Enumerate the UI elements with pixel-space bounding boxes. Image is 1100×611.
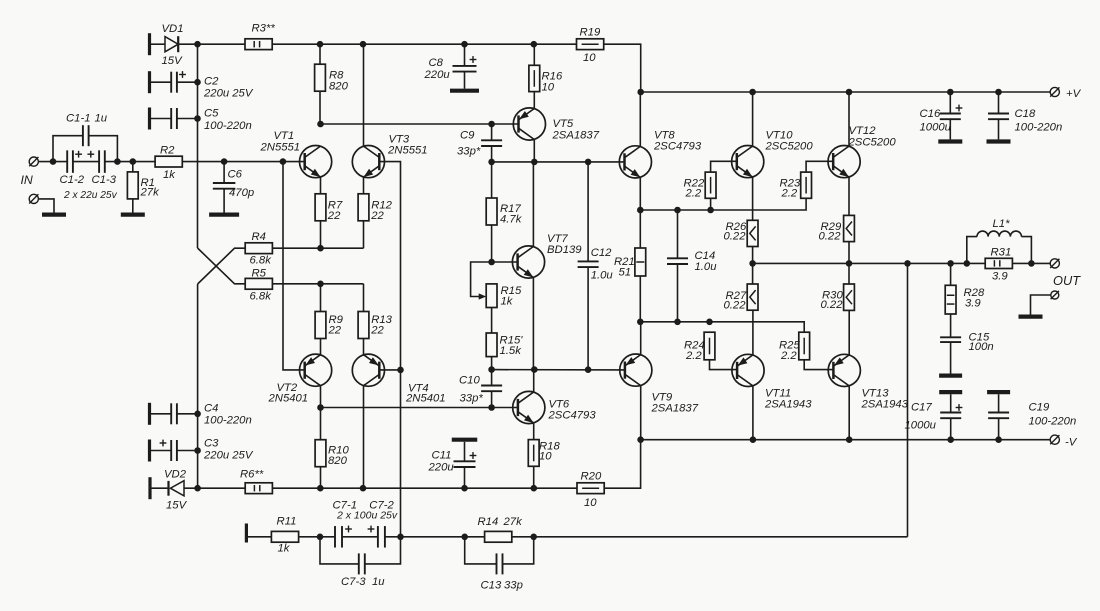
capacitor C11 220u [452, 438, 478, 442]
svg-text:C8: C8 [429, 57, 444, 69]
svg-text:R5: R5 [252, 268, 267, 280]
wire C7-1 to C7-2 [342, 536, 378, 538]
junction VT13 collector bottom [846, 436, 853, 443]
node R1 top [130, 158, 137, 165]
resistor R29 0.22 [844, 215, 855, 241]
wire VT1 emitter to R7 [320, 177, 322, 194]
resistor R28 3.9 [945, 285, 956, 314]
wire C1-2 to C1-3 [73, 161, 99, 163]
wire IN to C1 [39, 161, 68, 163]
resistor R23 2.2 [801, 172, 812, 198]
wire R12 to R4 line [363, 221, 365, 248]
junction R7 bottom [317, 245, 324, 252]
resistor R8 820 [315, 64, 326, 91]
capacitor C8 220u [464, 44, 466, 66]
resistor R13 22 [358, 312, 369, 339]
wire -V rail [641, 439, 1051, 441]
resistor R26 0.22 [747, 220, 758, 246]
svg-text:22: 22 [370, 325, 384, 337]
svg-text:0.22: 0.22 [821, 299, 844, 311]
svg-text:C17: C17 [911, 402, 932, 414]
wire VT8 collector to +V [639, 92, 641, 146]
wire bias bottom line y370 [492, 369, 625, 371]
terminal OUT [1050, 259, 1059, 268]
svg-text:27k: 27k [140, 187, 161, 199]
junction C17 bottom [947, 436, 954, 443]
wire VT6 emitter to R18 [533, 423, 535, 440]
svg-text:2.2: 2.2 [685, 188, 702, 200]
resistor R10 820 [315, 440, 326, 467]
wire lower driver line y322 [640, 322, 804, 332]
svg-text:2.2: 2.2 [780, 350, 797, 362]
junction C9 bottom R17 top [488, 159, 495, 166]
wire R4 to emitters line [272, 247, 363, 249]
svg-text:C12: C12 [591, 247, 612, 259]
junction C11 bottom [461, 485, 468, 492]
wire C1-3 to R2 [105, 161, 155, 163]
resistor R7 22 [315, 194, 326, 221]
junction R28 top [947, 260, 954, 267]
capacitor C10 33p* [491, 370, 493, 386]
terminal stub for VD1 [148, 33, 151, 55]
junction C19 bottom [995, 436, 1002, 443]
resistor R4 6.8k [245, 243, 272, 254]
junction R16 top [531, 41, 538, 48]
capacitor C4 100-220n [148, 403, 151, 425]
svg-text:33p*: 33p* [457, 146, 481, 158]
capacitor C7-2 100u [377, 526, 379, 548]
wire VT12 base to R23 [806, 161, 833, 172]
wire VT13 emitter to R30 [848, 310, 850, 355]
ground (C8) [450, 89, 479, 93]
wire bias line A vertical [197, 44, 199, 248]
svg-text:1u: 1u [95, 112, 108, 124]
resistor R9 22 [315, 312, 326, 339]
svg-text:10: 10 [583, 52, 596, 64]
svg-text:10: 10 [542, 82, 555, 94]
terminal OUT ground [1051, 291, 1059, 299]
wire R29 to output line [848, 242, 850, 264]
ground (C15) [939, 374, 962, 378]
terminal IN [29, 157, 38, 166]
junction R26 R27 [749, 260, 756, 267]
wire R11 to C7 [299, 536, 335, 538]
terminal +V [1050, 87, 1059, 96]
svg-text:100-220n: 100-220n [204, 120, 252, 132]
capacitor C15 100n [950, 314, 952, 337]
terminal -V [1050, 435, 1059, 444]
capacitor C1-3 22u [98, 150, 100, 173]
junction feedback tap [904, 260, 911, 267]
resistor R16 10 [529, 65, 540, 91]
junction R14 C13 right [530, 534, 537, 541]
svg-text:3.9: 3.9 [965, 298, 981, 310]
svg-text:R6**: R6** [240, 469, 264, 481]
ground (output) [1031, 295, 1051, 315]
capacitor C3 220u 25V [148, 440, 151, 462]
svg-text:220u: 220u [424, 69, 451, 81]
wire VT2 base line [283, 162, 305, 370]
svg-text:2.2: 2.2 [685, 350, 702, 362]
wire VT6 collector up [533, 370, 535, 392]
svg-text:VD1: VD1 [162, 23, 184, 35]
wire bias line B diagonal to R4 [198, 248, 246, 284]
svg-text:R20: R20 [581, 471, 602, 483]
svg-text:C13: C13 [481, 580, 502, 592]
wire C7-2 to R14 [385, 536, 485, 538]
transistor VT12 2SC5200 [828, 146, 860, 178]
junction C7 right [397, 534, 404, 541]
svg-text:2SA1837: 2SA1837 [651, 403, 699, 415]
capacitor C9 33p* [491, 124, 493, 140]
wire R5 to emitters line [272, 283, 363, 285]
junction R15' bottom [488, 366, 495, 373]
svg-text:6.8k: 6.8k [250, 291, 273, 303]
capacitor C14 1.0u [677, 210, 679, 258]
svg-text:C18: C18 [1015, 108, 1036, 120]
resistor R15 1k (trimmer) [486, 284, 497, 308]
svg-text:220u 25V: 220u 25V [203, 88, 254, 100]
junction C9 top [488, 121, 495, 128]
resistor R2 1k [155, 156, 182, 167]
junction VT4 collector bottom [360, 485, 367, 492]
svg-text:C11: C11 [432, 450, 452, 462]
wire feedback horizontal [534, 536, 908, 538]
svg-text:R11: R11 [277, 516, 297, 528]
wire R20 to -V rail [604, 440, 640, 489]
svg-text:3.9: 3.9 [992, 271, 1008, 283]
svg-text:C3: C3 [204, 438, 219, 450]
svg-text:1000u: 1000u [920, 122, 952, 134]
junction VT7 base [488, 259, 495, 266]
junction VT1/VT2 base line [280, 158, 287, 165]
wire VT10 emitter to R26 [752, 177, 754, 220]
wire R26 to output line [752, 247, 754, 264]
node C1-1 right [114, 158, 121, 165]
svg-text:R2: R2 [160, 145, 175, 157]
svg-text:6.8k: 6.8k [250, 255, 273, 267]
svg-text:C19: C19 [1029, 402, 1050, 414]
svg-text:1u: 1u [372, 576, 385, 588]
junction C12 bottom [585, 366, 592, 373]
resistor R14 27k [485, 531, 512, 542]
svg-text:1k: 1k [501, 296, 514, 308]
svg-text:C1-2: C1-2 [60, 174, 85, 186]
svg-text:C2: C2 [204, 76, 219, 88]
junction VT7 emitter VT6 collector [531, 366, 538, 373]
svg-text:C4: C4 [204, 403, 218, 415]
wire VT2 collector down [320, 386, 322, 408]
svg-text:0.22: 0.22 [724, 231, 747, 243]
wire VT13 collector to -V [848, 386, 850, 440]
transistor VT3 2N5551 [352, 146, 384, 178]
junction C8 top [461, 41, 468, 48]
junction R29 R30 [846, 260, 853, 267]
resistor R27 0.22 [747, 284, 758, 310]
junction R18 bottom [531, 485, 538, 492]
svg-text:22: 22 [370, 210, 384, 222]
transistor VT1 2N5551 [300, 146, 332, 178]
svg-text:2 x 100u 25v: 2 x 100u 25v [336, 510, 398, 522]
svg-text:2SA1943: 2SA1943 [861, 399, 909, 411]
svg-text:33p*: 33p* [460, 393, 484, 405]
svg-text:R14: R14 [478, 516, 499, 528]
svg-text:C5: C5 [204, 108, 219, 120]
capacitor C12 1.0u [587, 162, 589, 262]
transistor VT7 BD139 [512, 246, 544, 278]
wire VT3 base to VT4 base (vertical) [379, 162, 400, 537]
capacitor C5 100-220n [148, 108, 151, 130]
svg-text:15V: 15V [162, 55, 184, 67]
svg-text:100-220n: 100-220n [204, 415, 252, 427]
terminal stub R11 [245, 524, 248, 543]
zener diode VD1 15V [151, 43, 165, 45]
trimmer wiper arrow R15 [471, 262, 492, 297]
wire bias line A diagonal to R5 [198, 248, 246, 284]
svg-text:+V: +V [1066, 88, 1082, 100]
transistor VT11 2SA1943 [732, 354, 764, 386]
junction VT3 collector [360, 41, 367, 48]
svg-text:27k: 27k [503, 516, 524, 528]
svg-text:4.7k: 4.7k [500, 214, 523, 226]
svg-text:VT12: VT12 [849, 125, 877, 137]
capacitor C7-1 100u [334, 526, 336, 548]
svg-text:100n: 100n [969, 341, 994, 353]
resistor R21 51 [635, 248, 646, 276]
wire R2 to VT1 base [182, 161, 304, 163]
svg-text:820: 820 [329, 81, 349, 93]
svg-text:2SA1943: 2SA1943 [764, 399, 812, 411]
capacitor C16 1000u [949, 92, 951, 114]
transistor VT5 2SA1837 [513, 108, 545, 140]
transistor VT4 2N5401 [352, 354, 384, 386]
wire VD1 to R3 [178, 43, 245, 45]
junction VT5 VT7 collectors [531, 159, 538, 166]
svg-text:100-220n: 100-220n [1029, 416, 1077, 428]
resistor R15' 1.5k [486, 333, 497, 357]
svg-text:820: 820 [328, 455, 348, 467]
junction R10 bottom [317, 485, 324, 492]
ground (C16) [938, 139, 962, 143]
svg-text:0.22: 0.22 [819, 231, 842, 243]
svg-text:2SC4793: 2SC4793 [653, 141, 702, 153]
junction C13 left [461, 534, 468, 541]
svg-text:C6: C6 [228, 169, 243, 181]
svg-text:220u: 220u [428, 462, 455, 474]
transistor VT9 2SA1837 [620, 354, 652, 386]
junction VT4 base [397, 367, 404, 374]
transistor VT10 2SC5200 [732, 146, 764, 178]
svg-text:220u 25V: 220u 25V [203, 450, 254, 462]
junction VT12 collector [846, 89, 853, 96]
resistor R22 2.2 [705, 172, 716, 198]
wire VT9 collector to -V [640, 386, 642, 440]
junction L1 right [1028, 260, 1035, 267]
node C1-1 left [50, 158, 57, 165]
svg-text:100-220n: 100-220n [1015, 122, 1063, 134]
wire R31 to OUT [1012, 262, 1050, 264]
svg-text:2.2: 2.2 [781, 188, 798, 200]
wire driver emitter line y210 [640, 198, 806, 210]
wire VT11 emitter to R27 [752, 310, 754, 355]
svg-text:R4: R4 [252, 231, 266, 243]
svg-text:2SC5200: 2SC5200 [765, 141, 814, 153]
wire VT4 collector to bottom rail [363, 386, 365, 489]
node bottom-left bias [194, 485, 201, 492]
svg-text:C16: C16 [920, 108, 941, 120]
wire top rail R3 to R19 [272, 43, 576, 45]
wire VT7 emitter down [532, 278, 534, 370]
svg-text:IN: IN [21, 173, 33, 187]
svg-text:VT5: VT5 [553, 118, 574, 130]
svg-text:R19: R19 [580, 27, 601, 39]
resistor R12 22 [358, 194, 369, 221]
junction R22 bottom [707, 207, 714, 214]
transistor VT2 2N5401 [300, 354, 332, 386]
capacitor C7-3 1u (bypass) [320, 537, 359, 564]
svg-text:C1-3: C1-3 [92, 174, 117, 186]
resistor R30 0.22 [844, 284, 855, 310]
resistor R19 10 [577, 39, 604, 50]
wire R15 to R15prime [491, 308, 493, 334]
svg-text:2N5551: 2N5551 [260, 142, 301, 154]
wire output line y263 [753, 262, 986, 264]
junction VT11 collector bottom [750, 436, 757, 443]
ground (R1) [132, 199, 134, 213]
resistor R1 27k [127, 172, 138, 199]
ground (C18) [987, 139, 1011, 143]
wire +V rail [641, 91, 1050, 93]
wire VT5 collector down [533, 140, 535, 162]
svg-text:2 x 22u 25v: 2 x 22u 25v [63, 190, 118, 201]
wire VT11 collector to -V [752, 386, 754, 440]
junction VT8 emitter [637, 207, 644, 214]
svg-text:L1*: L1* [993, 218, 1011, 230]
svg-text:-V: -V [1065, 437, 1078, 449]
svg-text:0.22: 0.22 [724, 300, 747, 312]
junction R8 top [317, 41, 324, 48]
svg-text:2SA1837: 2SA1837 [552, 130, 600, 142]
svg-text:C9: C9 [460, 130, 475, 142]
wire VT2 collector node to R10 [320, 408, 322, 440]
svg-text:1.5k: 1.5k [500, 345, 523, 357]
svg-text:1.0u: 1.0u [591, 270, 614, 282]
ground (input) [39, 199, 54, 213]
wire bias line B vertical [197, 284, 199, 488]
svg-text:15V: 15V [166, 500, 188, 512]
junction VT2 collector [317, 404, 324, 411]
junction C18 top [995, 89, 1002, 96]
capacitor C19 100-220n [998, 394, 1000, 412]
junction R9 top [317, 281, 324, 288]
capacitor C13 33p (bypass) [465, 537, 497, 564]
wire VT10 collector to +V [752, 92, 754, 146]
wire R15' to bias bottom [491, 357, 493, 370]
wire VT3 emitter to R12 [363, 177, 365, 194]
junction C10 bottom [488, 404, 495, 411]
capacitor C18 100-220n [998, 92, 1000, 114]
svg-text:1.0u: 1.0u [695, 261, 718, 273]
resistor R6** (bottom rail) [245, 483, 272, 494]
svg-text:10: 10 [584, 497, 597, 509]
svg-text:C1-1: C1-1 [66, 112, 91, 124]
wire VT7 collector up [532, 162, 534, 247]
ground (C17) [939, 390, 962, 394]
resistor R20 10 [577, 483, 604, 494]
wire VT7 base [492, 261, 518, 263]
wire R7 to R4 node [320, 221, 322, 248]
wire R14 right [512, 536, 534, 538]
capacitor C6 470p [223, 162, 225, 183]
junction VT10 collector [749, 89, 756, 96]
svg-text:2N5401: 2N5401 [268, 393, 309, 405]
inductor L1* [967, 237, 977, 264]
capacitor C1-1 1u (parallel) [53, 136, 83, 162]
wire VT4 emitter to R13 [363, 339, 365, 355]
ground (C19) [987, 390, 1010, 394]
transistor VT6 2SC4793 [513, 391, 545, 423]
junction VT9 collector [637, 436, 644, 443]
resistor R31 3.9 [985, 258, 1012, 268]
junction L1 left [964, 260, 971, 267]
svg-text:10: 10 [539, 451, 552, 463]
resistor R24 2.2 [704, 332, 715, 360]
wire VT8 emitter down [639, 177, 641, 210]
resistor R5 6.8k [245, 278, 272, 289]
wire VT1 collector to VT5 base [321, 123, 519, 125]
transistor VT13 2SA1943 [828, 354, 860, 386]
wire VT9 emitter up [640, 322, 642, 355]
resistor R18 10 [528, 440, 539, 467]
junction C14 bottom [674, 319, 681, 326]
wire VT10 base to R22 [711, 161, 737, 172]
node top-left bias [194, 41, 201, 48]
junction C12 top [585, 159, 592, 166]
svg-text:VT1: VT1 [274, 130, 295, 142]
svg-text:2SC5200: 2SC5200 [848, 136, 897, 148]
junction C16 top [947, 89, 954, 96]
wire VT3 collector to top rail [363, 44, 365, 146]
wire VAS output line y162 [492, 161, 625, 163]
resistor R3** (top rail) [245, 39, 272, 50]
svg-text:BD139: BD139 [547, 244, 582, 256]
svg-text:1k: 1k [278, 543, 291, 555]
junction C6 top [221, 158, 228, 165]
svg-text:22: 22 [328, 325, 342, 337]
svg-text:R31: R31 [991, 247, 1012, 259]
terminal stub for VD2 [148, 477, 151, 499]
zener diode VD2 15V [152, 487, 169, 489]
wire VD2 to R6 [184, 487, 245, 489]
wire R19 to +V rail [604, 44, 641, 92]
junction VT1 collector [317, 121, 324, 128]
svg-text:R3**: R3** [252, 23, 276, 35]
terminal input ground [29, 194, 38, 203]
svg-text:33p: 33p [504, 580, 523, 592]
resistor R17 4.7k [486, 198, 497, 225]
junction C14 top [674, 207, 681, 214]
svg-text:51: 51 [619, 267, 632, 279]
wire VT4 base to vertical line [379, 369, 400, 371]
svg-text:C10: C10 [459, 375, 480, 387]
svg-text:C7-3: C7-3 [341, 576, 366, 588]
wire VT2 collector to VT6 base [321, 407, 518, 409]
junction R21 bottom VT9 emitter [637, 319, 644, 326]
resistor R11 1k [248, 536, 271, 538]
wire feedback vertical [907, 263, 909, 536]
wire bottom bias rail [272, 487, 577, 489]
svg-text:1000u: 1000u [905, 420, 937, 432]
